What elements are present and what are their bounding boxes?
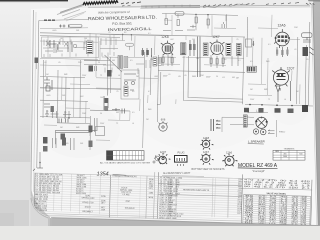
converter stage extra detail	[84, 57, 161, 96]
svg-text:GEN: GEN	[275, 151, 280, 153]
IF transformer T2 secondary	[237, 44, 242, 56]
extra long wires	[40, 88, 143, 148]
cap cluster left of 12A6	[246, 39, 252, 47]
speaker field coil	[243, 115, 247, 127]
svg-text:.01: .01	[168, 74, 171, 76]
mid verticals tall	[143, 52, 144, 113]
bus A	[40, 33, 162, 35]
lighter handwriting marks right of scribble	[121, 2, 141, 4]
IF strip lower bus	[158, 71, 245, 73]
drops from top bus	[166, 14, 226, 31]
band switch cluster	[44, 104, 50, 116]
svg-text:465: 465	[232, 77, 235, 79]
svg-text:.01: .01	[222, 77, 225, 79]
svg-text:.01: .01	[294, 49, 297, 51]
svg-text:50M: 50M	[192, 76, 196, 78]
svg-text:PLUG: PLUG	[177, 151, 184, 155]
tube V3 12Q7 detector	[272, 67, 290, 90]
left area horizontals	[40, 77, 85, 78]
pot under 12Q7	[276, 86, 280, 102]
aerial trimmer cluster	[59, 25, 69, 28]
tuning gang box	[42, 37, 99, 58]
svg-text:.0005: .0005	[46, 95, 51, 97]
shield box mid	[121, 70, 139, 99]
left area verticals	[42, 60, 45, 118]
svg-text:12K7: 12K7	[212, 35, 220, 39]
ruled annotation with ticks	[141, 4, 200, 7]
arrows to transformer right	[268, 131, 275, 134]
svg-text:KNOB: KNOB	[85, 207, 91, 209]
right column verticals	[297, 37, 298, 104]
node dots on top bus	[195, 14, 196, 15]
caps at x58-66 y118	[59, 119, 68, 123]
vertical dividers	[34, 169, 312, 227]
resistors hanging under IF tubes	[89, 54, 239, 72]
IF transformer T1	[181, 43, 186, 55]
faint marks far right top	[266, 2, 299, 4]
svg-text:.05: .05	[184, 75, 187, 77]
svg-text:SPEAKER FIELD: SPEAKER FIELD	[159, 210, 176, 213]
svg-text:1400: 1400	[283, 156, 287, 158]
svg-text:2M: 2M	[236, 77, 239, 79]
svg-text:"Invercargill": "Invercargill"	[252, 170, 265, 173]
schematic left border	[37, 21, 39, 169]
dark cluster right of loop aerial	[89, 66, 94, 72]
12K8 grid components	[143, 48, 152, 57]
speaker connecting wires	[222, 117, 254, 132]
schematic top border left	[39, 19, 88, 20]
stronger sheet-edge fan top-left	[57, 5, 84, 14]
vertical x226	[226, 14, 228, 28]
bottom right bus	[245, 104, 313, 106]
audio output stage cluster	[40, 111, 97, 162]
paper top margin white above edge	[60, 0, 313, 8]
svg-text:.002: .002	[170, 39, 174, 41]
svg-text:12Q7: 12Q7	[160, 150, 167, 154]
components in shield box	[124, 74, 136, 80]
osc section components	[49, 40, 56, 48]
components under IF tubes row	[190, 40, 194, 56]
bottom strip below paper	[50, 218, 320, 226]
stacked sheet edges top-left corner	[60, 5, 83, 13]
dial label box	[69, 25, 82, 28]
choke coil left of 12Q7	[247, 66, 256, 72]
output transformer top right	[302, 33, 313, 38]
resistors under 12A6	[277, 47, 288, 57]
densification pass upper-left	[43, 38, 150, 74]
svg-text:L.SPEAKER: L.SPEAKER	[248, 140, 266, 144]
cap row under bus mid-left	[112, 108, 120, 111]
svg-text:.05: .05	[58, 62, 61, 64]
svg-text:FIELD: FIELD	[279, 132, 286, 134]
dark mark on left border	[35, 58, 39, 64]
tube base 12Q7 left	[157, 153, 170, 164]
mid bus under IF strip	[162, 35, 245, 37]
svg-text:.05: .05	[178, 76, 181, 78]
resistors on dropper wires from top bus	[163, 17, 225, 31]
svg-text:12A6: 12A6	[226, 150, 233, 154]
left paper edge double line	[31, 10, 34, 196]
svg-text:.05: .05	[306, 59, 309, 61]
svg-text:25M: 25M	[200, 75, 204, 77]
svg-text:OSC: OSC	[126, 201, 131, 203]
svg-text:100: 100	[192, 39, 195, 41]
resistor boxes under bottom-right bus	[244, 108, 249, 113]
additional interconnect wires	[40, 15, 300, 141]
speaker plug socket	[255, 117, 268, 129]
svg-text:250V: 250V	[206, 77, 211, 79]
dial lamp box on top bus	[175, 12, 184, 16]
padder label box and bus junctions	[122, 34, 134, 50]
speaker pin circles below	[253, 129, 266, 135]
handwritten scribble top	[83, 1, 118, 5]
top bus	[162, 13, 238, 15]
IF transformer T2	[226, 43, 231, 55]
diagonal wire	[105, 55, 123, 72]
wire bottom left to table	[90, 109, 130, 112]
aerial coil	[44, 19, 55, 21]
oscillator coil	[118, 56, 128, 69]
svg-text:12K8: 12K8	[203, 136, 210, 140]
svg-text:CORD 2730: CORD 2730	[82, 202, 94, 204]
svg-text:ALL VOLTAGES TAKEN WITH 1000 O: ALL VOLTAGES TAKEN WITH 1000 O.P.V. METE…	[100, 162, 151, 165]
long vertical x244	[243, 37, 245, 104]
svg-text:SPRING 1190: SPRING 1190	[81, 197, 95, 199]
svg-text:TRIMMERS: TRIMMERS	[284, 149, 295, 151]
svg-text:.01: .01	[44, 62, 47, 64]
svg-text:465: 465	[116, 112, 119, 114]
svg-text:600: 600	[299, 154, 302, 156]
tube V1 12K8 converter	[161, 41, 175, 55]
IF transformer T2 primary	[203, 43, 208, 56]
svg-text:I.F. 465: I.F. 465	[123, 194, 131, 196]
svg-text:12Q7: 12Q7	[287, 67, 295, 71]
svg-text:0.5: 0.5	[132, 112, 135, 114]
wave trap cluster left	[44, 77, 50, 86]
tube base 12A6 large	[222, 154, 237, 167]
compliments text block	[88, 9, 157, 32]
svg-text:.002: .002	[80, 96, 84, 98]
top-right corner dark streak	[308, 0, 320, 2]
svg-text:12K7: 12K7	[203, 150, 210, 154]
svg-text:L.S.: L.S.	[256, 109, 261, 112]
tube base 12K8	[200, 139, 213, 150]
ground symbol above table	[33, 162, 43, 171]
svg-text:P.O. Box 551: P.O. Box 551	[112, 21, 132, 25]
fuse symbol right of voltage table	[153, 155, 160, 163]
svg-text:1354: 1354	[97, 171, 109, 177]
svg-text:GROMMET: GROMMET	[82, 211, 93, 213]
svg-text:50: 50	[216, 76, 218, 78]
svg-text:12A6: 12A6	[278, 24, 286, 28]
nested L wires center	[183, 56, 243, 102]
output tube base small top	[159, 121, 168, 131]
loop aerial coil	[87, 41, 93, 54]
tube V4 12A6 output	[274, 29, 290, 48]
svg-text:350V 2206: 350V 2206	[76, 193, 87, 195]
right edge gray strip outside paper	[313, 0, 320, 226]
bus B	[40, 36, 120, 38]
speaker trans mid arrows	[211, 119, 214, 131]
battery plug connector	[175, 156, 188, 167]
svg-text:100: 100	[100, 97, 103, 99]
wire speaker top	[248, 113, 269, 118]
svg-text:With the Compliments of: With the Compliments of	[98, 10, 131, 15]
paper corner masks over table	[0, 162, 48, 226]
volume pot cluster	[104, 96, 108, 110]
paper top edge line	[88, 5, 310, 7]
junction dots bottom bus	[249, 104, 251, 106]
tube V2 12K7 IF amp	[210, 40, 225, 56]
tube base 12K7	[200, 153, 214, 164]
svg-text:12K8: 12K8	[161, 35, 169, 39]
tuning gang internals	[45, 41, 84, 53]
svg-text:.25: .25	[116, 91, 119, 93]
svg-text:25M: 25M	[294, 27, 298, 29]
vertical x247	[246, 17, 249, 57]
scanner dark hairline top-left	[0, 0, 68, 1]
svg-text:BOTTOM VIEW OF SOCKETS: BOTTOM VIEW OF SOCKETS	[191, 168, 224, 171]
scan mottle blotches	[40, 15, 315, 220]
wavy handwriting trace	[203, 4, 250, 8]
svg-text:L4: L4	[132, 123, 134, 125]
svg-text:.0005: .0005	[52, 30, 57, 32]
bottom paper edge	[51, 218, 320, 226]
handwriting over middle	[203, 3, 255, 6]
right paper edge	[313, 4, 318, 226]
svg-text:6V6: 6V6	[161, 118, 166, 122]
